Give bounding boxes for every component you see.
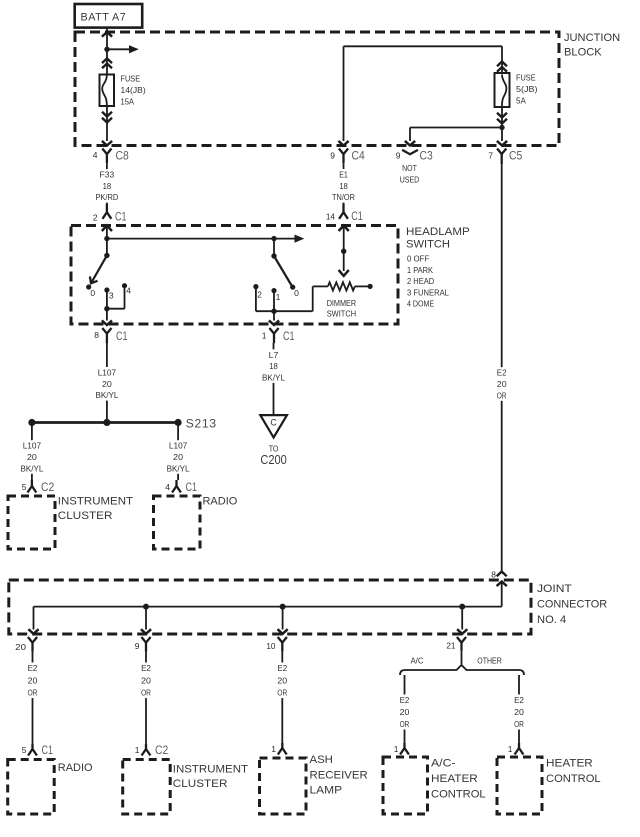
svg-text:CONNECTOR: CONNECTOR	[537, 599, 607, 611]
svg-text:1: 1	[271, 744, 276, 754]
svg-text:E2: E2	[141, 663, 151, 673]
svg-text:0 OFF: 0 OFF	[407, 254, 429, 264]
svg-text:C1: C1	[115, 210, 127, 224]
svg-text:CLUSTER: CLUSTER	[58, 510, 113, 522]
svg-text:C1: C1	[42, 743, 54, 757]
svg-text:C5: C5	[509, 149, 522, 163]
svg-text:C2: C2	[41, 480, 54, 494]
svg-text:A/C-: A/C-	[431, 758, 456, 770]
svg-text:BK/YL: BK/YL	[167, 463, 190, 473]
svg-text:1: 1	[508, 744, 513, 754]
svg-text:CONTROL: CONTROL	[546, 773, 601, 785]
svg-text:JOINT: JOINT	[537, 583, 572, 595]
svg-text:14(JB): 14(JB)	[121, 85, 146, 95]
svg-text:BLOCK: BLOCK	[564, 47, 602, 59]
svg-text:BK/YL: BK/YL	[20, 463, 43, 473]
svg-text:8: 8	[491, 570, 496, 580]
svg-text:C2: C2	[155, 743, 168, 757]
svg-text:FUSE: FUSE	[516, 73, 536, 83]
svg-text:TN/OR: TN/OR	[332, 192, 355, 202]
svg-text:OR: OR	[28, 688, 38, 698]
svg-text:LAMP: LAMP	[310, 785, 343, 797]
svg-text:20: 20	[141, 675, 151, 685]
svg-text:0: 0	[90, 288, 95, 298]
svg-text:C1: C1	[116, 329, 128, 343]
svg-text:0: 0	[294, 288, 299, 298]
svg-text:3: 3	[109, 291, 114, 301]
svg-text:5(JB): 5(JB)	[516, 84, 538, 94]
svg-text:SWITCH: SWITCH	[406, 239, 450, 251]
svg-text:9: 9	[396, 151, 401, 161]
svg-text:20: 20	[173, 452, 183, 462]
svg-text:20: 20	[102, 379, 112, 389]
svg-text:8: 8	[94, 330, 99, 340]
svg-text:18: 18	[103, 181, 112, 191]
svg-text:9: 9	[135, 641, 140, 651]
svg-text:14: 14	[326, 211, 335, 221]
svg-text:C3: C3	[420, 149, 433, 163]
svg-text:RECEIVER: RECEIVER	[310, 770, 368, 782]
svg-text:L107: L107	[23, 441, 42, 451]
svg-text:RADIO: RADIO	[58, 762, 93, 774]
svg-text:OTHER: OTHER	[477, 656, 502, 666]
svg-text:OR: OR	[277, 688, 287, 698]
svg-text:S213: S213	[186, 417, 217, 431]
svg-text:9: 9	[330, 151, 335, 161]
svg-text:OR: OR	[497, 390, 507, 400]
svg-text:C1: C1	[351, 209, 363, 223]
svg-text:4: 4	[93, 150, 98, 160]
svg-text:CLUSTER: CLUSTER	[173, 778, 228, 790]
svg-text:RADIO: RADIO	[203, 496, 238, 508]
svg-text:OR: OR	[141, 688, 151, 698]
svg-text:4 DOME: 4 DOME	[407, 299, 435, 309]
svg-text:TO: TO	[269, 443, 279, 453]
svg-text:E2: E2	[514, 695, 524, 705]
svg-text:L107: L107	[98, 368, 117, 378]
svg-text:10: 10	[266, 641, 275, 651]
svg-text:20: 20	[277, 675, 287, 685]
svg-text:A/C: A/C	[410, 656, 423, 666]
svg-text:2: 2	[93, 213, 98, 223]
svg-text:BK/YL: BK/YL	[262, 372, 285, 382]
svg-text:C4: C4	[352, 149, 365, 163]
svg-text:HEADLAMP: HEADLAMP	[406, 226, 470, 238]
svg-text:L107: L107	[169, 441, 188, 451]
svg-text:18: 18	[339, 181, 348, 191]
svg-text:E2: E2	[400, 695, 410, 705]
svg-text:HEATER: HEATER	[431, 773, 478, 785]
svg-text:E2: E2	[28, 663, 38, 673]
svg-text:20: 20	[514, 707, 524, 717]
svg-text:INSTRUMENT: INSTRUMENT	[173, 764, 248, 776]
svg-text:4: 4	[165, 482, 170, 492]
svg-text:L7: L7	[269, 350, 279, 360]
svg-text:1: 1	[135, 745, 140, 755]
svg-text:5: 5	[22, 482, 27, 492]
svg-text:E2: E2	[277, 663, 287, 673]
svg-text:HEATER: HEATER	[546, 758, 593, 770]
svg-text:3 FUNERAL: 3 FUNERAL	[407, 287, 449, 297]
svg-text:SWITCH: SWITCH	[327, 308, 356, 318]
svg-text:7: 7	[488, 151, 493, 161]
svg-text:DIMMER: DIMMER	[327, 298, 356, 308]
svg-text:1: 1	[394, 744, 399, 754]
svg-text:C1: C1	[283, 329, 295, 343]
svg-text:E2: E2	[497, 368, 507, 378]
svg-text:E1: E1	[339, 170, 348, 180]
svg-text:15A: 15A	[121, 97, 135, 107]
svg-text:20: 20	[400, 707, 410, 717]
svg-text:F33: F33	[100, 170, 115, 180]
svg-text:CONTROL: CONTROL	[431, 789, 486, 801]
svg-text:PK/RD: PK/RD	[95, 192, 118, 202]
svg-text:1 PARK: 1 PARK	[407, 265, 433, 275]
svg-text:C200: C200	[260, 453, 287, 467]
svg-text:5A: 5A	[516, 96, 526, 106]
svg-text:BATT A7: BATT A7	[81, 12, 127, 24]
svg-text:INSTRUMENT: INSTRUMENT	[58, 496, 133, 508]
svg-text:NOT: NOT	[402, 163, 417, 173]
svg-text:ASH: ASH	[310, 754, 333, 766]
svg-text:OR: OR	[400, 719, 410, 729]
svg-text:5: 5	[22, 745, 27, 755]
svg-text:20: 20	[15, 642, 26, 652]
svg-text:2: 2	[257, 290, 262, 300]
svg-text:BK/YL: BK/YL	[95, 390, 118, 400]
svg-text:4: 4	[126, 286, 131, 296]
svg-text:USED: USED	[400, 174, 420, 184]
svg-text:21: 21	[446, 641, 455, 651]
svg-text:C8: C8	[116, 149, 129, 163]
svg-text:1: 1	[262, 331, 267, 341]
svg-text:C1: C1	[186, 480, 198, 494]
svg-text:C: C	[270, 418, 277, 428]
svg-text:20: 20	[28, 675, 38, 685]
svg-text:20: 20	[27, 452, 37, 462]
svg-text:20: 20	[497, 379, 507, 389]
svg-text:1: 1	[276, 292, 281, 302]
svg-text:NO. 4: NO. 4	[537, 614, 566, 626]
svg-text:JUNCTION: JUNCTION	[564, 32, 620, 44]
svg-text:FUSE: FUSE	[121, 74, 141, 84]
svg-text:18: 18	[269, 361, 278, 371]
svg-text:2 HEAD: 2 HEAD	[407, 276, 434, 286]
svg-text:OR: OR	[514, 719, 524, 729]
